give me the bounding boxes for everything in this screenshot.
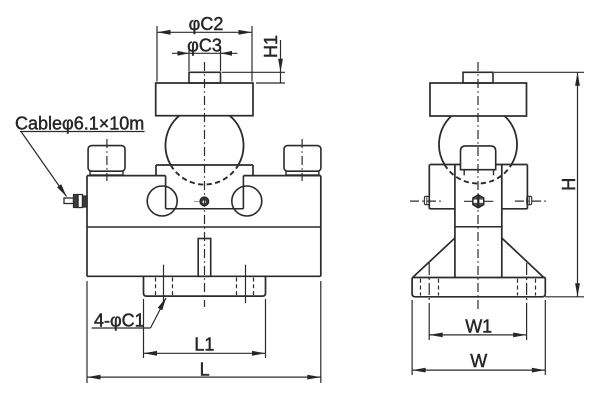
svg-text:φC2: φC2 — [189, 14, 224, 34]
svg-text:W: W — [470, 351, 487, 371]
svg-text:H1: H1 — [261, 35, 281, 58]
svg-text:L1: L1 — [194, 335, 214, 355]
svg-text:Cableφ6.1×10m: Cableφ6.1×10m — [15, 113, 144, 133]
svg-text:H: H — [559, 178, 579, 191]
svg-text:W1: W1 — [465, 317, 492, 337]
svg-text:φC3: φC3 — [187, 35, 222, 55]
svg-text:L: L — [200, 360, 210, 380]
svg-text:4-φC1: 4-φC1 — [94, 310, 145, 330]
